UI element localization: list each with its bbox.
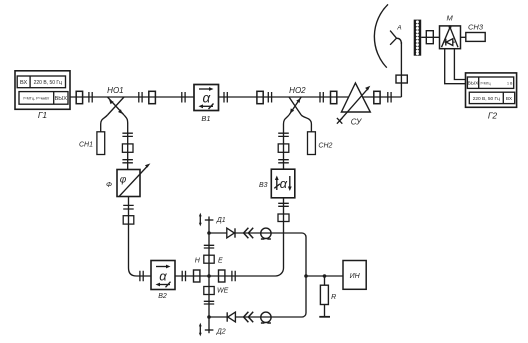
- connector rect before M: [426, 31, 433, 44]
- resistor R: [320, 285, 328, 304]
- D1 plunger tick: [205, 219, 214, 221]
- svg-text:Е: Е: [218, 258, 223, 265]
- wire: vertical feed riser: [400, 42, 402, 97]
- flange pair above tee: [204, 245, 214, 248]
- connector rect 3: [257, 91, 263, 103]
- flange pair 3: [182, 92, 185, 103]
- wire: M to CH3: [461, 36, 466, 38]
- connector rect on feed: [396, 75, 407, 83]
- svg-text:WE: WE: [217, 288, 229, 295]
- antenna reflector arc: [374, 4, 388, 67]
- wire: tee E-arm to V3: [209, 198, 284, 276]
- tee junction dot: [207, 274, 211, 278]
- chevrons D2: [244, 312, 254, 323]
- wire: M right pin to G2: [454, 49, 465, 80]
- svg-text:Ф: Ф: [106, 180, 112, 189]
- flange pair E-arm 2: [232, 271, 235, 282]
- attenuator V2 box: [151, 261, 175, 290]
- matched load CH2: [308, 132, 316, 155]
- svg-text:СН3: СН3: [468, 22, 484, 31]
- svg-text:СН1: СН1: [79, 142, 93, 149]
- connector rect below F: [123, 216, 134, 224]
- svg-text:R: R: [331, 294, 336, 301]
- svg-text:СУ: СУ: [351, 117, 362, 126]
- svg-text:НО2: НО2: [289, 86, 306, 95]
- antenna feed: [390, 31, 401, 45]
- generator G1: [15, 71, 70, 110]
- attenuator V1 box: [194, 85, 219, 111]
- flange pair 1: [89, 92, 92, 103]
- connector rect 1 (after G1): [76, 91, 82, 103]
- connector rect below V3: [278, 214, 289, 222]
- svg-text:f=МГц: f=МГц: [481, 81, 491, 85]
- svg-text:Д2: Д2: [216, 329, 226, 336]
- flange pair 2: [139, 92, 142, 103]
- svg-text:А: А: [396, 25, 401, 32]
- wire: M left pin to G2: [445, 49, 466, 84]
- svg-text:ВХ: ВХ: [506, 96, 513, 102]
- wire: bus to IN: [306, 275, 343, 277]
- connector rect before tee: [194, 270, 200, 282]
- chevrons D1: [244, 228, 254, 239]
- diode VD2: [227, 312, 235, 322]
- wire: F down and elbow to V2 line: [129, 197, 152, 277]
- D2 adjust arrow: [199, 323, 202, 337]
- svg-text:В3: В3: [259, 182, 268, 189]
- node D1 junction dot: [207, 231, 211, 235]
- connector rect 2: [149, 91, 156, 103]
- wire: tap to resistor: [324, 276, 326, 285]
- svg-text:ИН: ИН: [350, 273, 361, 280]
- connector rect 5: [374, 91, 380, 103]
- connector rect 4: [331, 91, 337, 103]
- matched load CH1: [97, 132, 105, 155]
- svg-text:Н: Н: [195, 257, 201, 264]
- svg-text:В1: В1: [201, 114, 210, 123]
- svg-text:f=МГц, Р=мкВт: f=МГц, Р=мкВт: [23, 97, 49, 101]
- matching unit SU triangle: [337, 83, 370, 124]
- ground: [319, 316, 330, 318]
- directional coupler NO1: [108, 97, 125, 115]
- flange pair after V2: [182, 271, 185, 282]
- svg-text:НО1: НО1: [107, 86, 123, 95]
- flange pair before V2: [140, 271, 143, 282]
- phase shifter F box: [117, 163, 150, 196]
- svg-text:α: α: [159, 268, 167, 283]
- matched load CH3: [466, 33, 485, 42]
- svg-text:М: М: [446, 14, 453, 23]
- flange pair 5: [268, 92, 271, 103]
- wire: NO2 right leg to CH2: [301, 115, 311, 132]
- svg-text:Д1: Д1: [216, 217, 226, 224]
- flange pair (vertical chain): [122, 133, 132, 136]
- tee vertical wire: [208, 217, 210, 334]
- diode VD1: [227, 228, 235, 238]
- node bus junction dot: [304, 274, 308, 278]
- generator G2: [466, 73, 517, 107]
- flange pair below tee: [204, 301, 214, 304]
- wire: resistor to ground: [324, 305, 326, 317]
- connector rect above V3: [278, 144, 289, 152]
- flange pair 7: [388, 92, 391, 103]
- flange pair below F: [123, 205, 134, 209]
- detector head D1 (omega): [261, 228, 271, 239]
- svg-text:ВЫХ: ВЫХ: [468, 81, 479, 87]
- sample grid strip: [414, 20, 422, 56]
- svg-text:ВХ: ВХ: [20, 80, 27, 86]
- wire: D1 line, right bus, D2 line: [209, 233, 306, 317]
- svg-text:ВЫХ: ВЫХ: [55, 96, 68, 102]
- connector rect H/E: [204, 255, 214, 263]
- svg-text:220 В, 50 Гц: 220 В, 50 Гц: [34, 80, 63, 86]
- directional coupler NO2: [289, 97, 301, 115]
- attenuator V3 box: [271, 169, 295, 198]
- flange pair 4: [224, 92, 227, 103]
- wire: strip to M: [421, 36, 439, 38]
- D2 plunger tick: [205, 329, 214, 331]
- detector M box: [440, 25, 461, 48]
- wire: V2 to tee: [175, 275, 209, 277]
- svg-text:1 В: 1 В: [507, 81, 513, 85]
- flange pair above V3: [278, 160, 289, 163]
- indicator IN box: [343, 261, 366, 290]
- svg-text:φ: φ: [120, 174, 127, 185]
- svg-text:α: α: [280, 176, 288, 191]
- svg-text:Г1: Г1: [38, 110, 48, 120]
- svg-text:220 В, 50 Гц: 220 В, 50 Гц: [473, 96, 500, 102]
- wire: NO2 left leg down: [284, 115, 290, 169]
- connector rect (vertical chain): [122, 144, 133, 152]
- svg-text:В2: В2: [158, 293, 167, 300]
- detector head D2 (omega): [261, 312, 271, 323]
- svg-text:α: α: [202, 91, 211, 106]
- node R tap dot: [323, 274, 327, 278]
- flange pair 6: [320, 92, 323, 103]
- connector rect WE: [204, 287, 214, 295]
- flange pair NO2 leg: [278, 133, 289, 136]
- svg-text:Г2: Г2: [488, 111, 498, 121]
- wire: NO1 right leg down to phase shifter F: [124, 115, 128, 170]
- flange pair below V3: [278, 203, 289, 206]
- svg-text:СН2: СН2: [318, 142, 332, 149]
- flange pair: [122, 160, 132, 163]
- node D2 junction dot: [207, 315, 211, 319]
- wire: NO1 left leg to CH1: [101, 115, 108, 132]
- D1 adjust arrow: [199, 213, 202, 227]
- wire: main horizontal line G1 output to antenna corner: [70, 96, 401, 98]
- connector rect E-arm: [219, 270, 225, 282]
